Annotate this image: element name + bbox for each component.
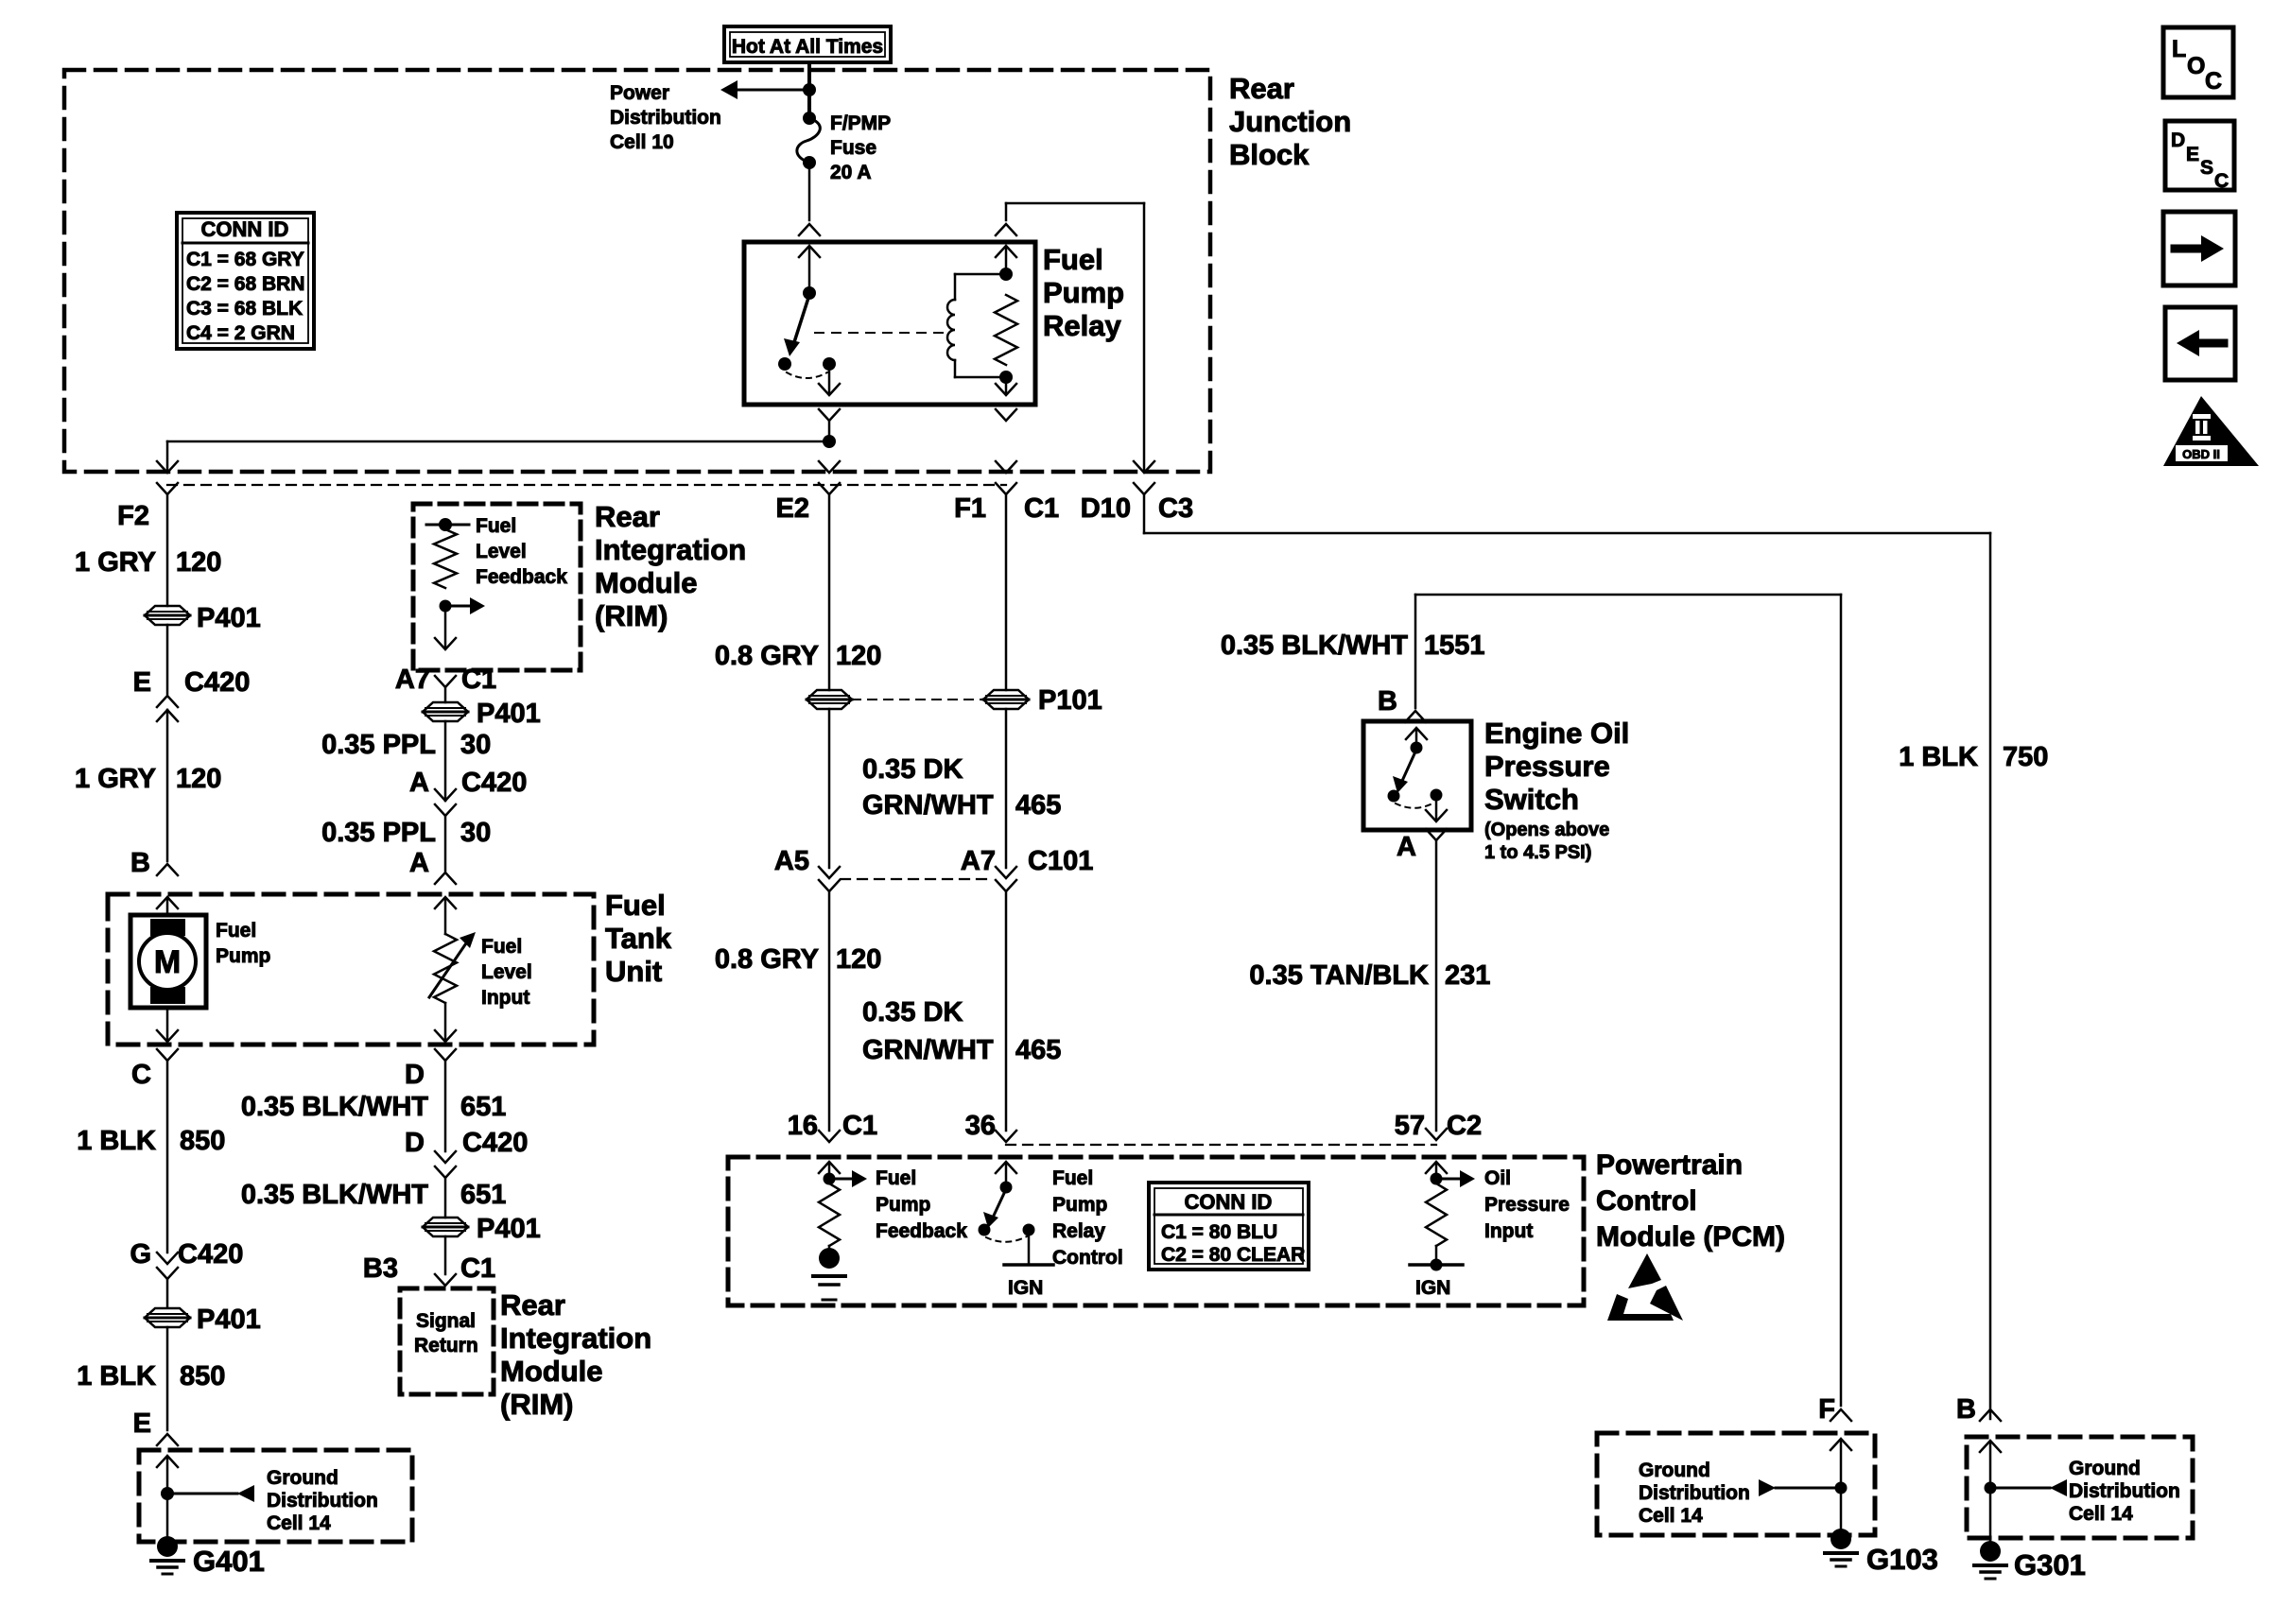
svg-text:20 A: 20 A: [830, 162, 872, 183]
svg-text:C2 = 68 BRN: C2 = 68 BRN: [186, 273, 304, 295]
svg-text:D: D: [405, 1060, 425, 1090]
svg-text:Integration: Integration: [500, 1322, 651, 1355]
svg-text:F2: F2: [117, 501, 149, 531]
svg-text:C1: C1: [461, 665, 496, 695]
wire label 0.35 DK GRN/WHT 465 (upper): [862, 754, 1061, 821]
svg-text:P101: P101: [1038, 685, 1102, 716]
label: Power Distribution Cell 10: [610, 82, 721, 153]
svg-text:0.35 PPL: 0.35 PPL: [321, 818, 436, 848]
pin label F2: [117, 501, 149, 531]
wire: junction to G103: [1840, 1488, 1843, 1529]
fuel level feedback pull-up top bar: [426, 518, 469, 531]
IGN rail tick (relay control): [1004, 1263, 1053, 1267]
svg-text:L: L: [2172, 36, 2186, 62]
label: Ground Distribution Cell 14 (G301): [2069, 1458, 2180, 1525]
wire label 0.35 PPL 30 (lower): [321, 818, 491, 848]
wire label 0.35 BLK/WHT 651 (lower): [241, 1180, 507, 1210]
wire: sender to box edge: [435, 1003, 456, 1042]
label P401 (lower left): [197, 1304, 261, 1335]
svg-text:Relay: Relay: [1043, 309, 1121, 342]
svg-text:C2: C2: [1447, 1111, 1482, 1141]
relay switch arm (movable contact): [784, 295, 809, 356]
svg-text:120: 120: [836, 944, 881, 975]
ground symbol G103: [1825, 1529, 1857, 1566]
wire label 0.8 GRY 120 (lower): [715, 944, 882, 975]
svg-text:36: 36: [965, 1111, 996, 1141]
svg-text:A7: A7: [961, 846, 996, 876]
svg-text:A7: A7: [395, 665, 430, 695]
wire label 1 GRY 120 (upper): [75, 547, 221, 578]
terminal caret at fuel tank unit (pin B): [157, 864, 178, 875]
pin label A (oil switch): [1397, 832, 1416, 862]
signal arrow (fuel level feedback): [445, 597, 485, 614]
svg-text:A: A: [409, 768, 429, 798]
arrow into ground cell: [157, 1456, 178, 1494]
rear junction block dashed boundary: [64, 70, 1210, 472]
variable resistor: fuel level input: [429, 932, 476, 1003]
svg-text:E: E: [133, 1408, 151, 1439]
label C1 (signal return conn): [460, 1253, 495, 1284]
svg-text:B: B: [130, 848, 150, 878]
pin label F1: [954, 493, 986, 524]
label: F/PMP Fuse 20 A: [830, 112, 891, 183]
reference arrow to Ground Distribution Cell 14 (G301): [1990, 1479, 2067, 1496]
relay actuation dashed link (coil to switch): [815, 332, 946, 334]
svg-text:C1 = 80 BLU: C1 = 80 BLU: [1161, 1221, 1277, 1243]
label C420 (pin E): [184, 667, 250, 698]
terminal caret at ground dist cell (E): [157, 1434, 178, 1445]
wire: A7 to P401: [444, 687, 447, 702]
svg-text:Fuel: Fuel: [1043, 243, 1103, 276]
svg-text:D: D: [405, 1128, 425, 1158]
F1 exit arrow and caret: [996, 461, 1016, 494]
label G103: [1866, 1543, 1938, 1576]
label IGN (oil pressure): [1415, 1277, 1450, 1299]
label: Rear Junction Block: [1229, 72, 1351, 171]
svg-text:30: 30: [460, 818, 491, 848]
reference arrow to Ground Distribution Cell 14: [167, 1485, 254, 1502]
label C420 (pin A): [461, 768, 527, 798]
svg-text:Fuel: Fuel: [1052, 1167, 1093, 1189]
pin label C1 (RIM): [1024, 493, 1059, 524]
PCM pin 36 arrow: [996, 1162, 1016, 1185]
svg-text:Distribution: Distribution: [2069, 1480, 2180, 1502]
svg-text:120: 120: [176, 547, 221, 578]
wire label 1 GRY 120 (lower): [75, 764, 221, 794]
wire label 0.35 DK GRN/WHT 465 (lower): [862, 997, 1061, 1065]
svg-text:Level: Level: [481, 961, 532, 983]
wire: coil bottom to relay box edge: [996, 377, 1016, 395]
label: Engine Oil Pressure Switch: [1484, 717, 1629, 816]
label P101: [1038, 685, 1102, 716]
terminal caret at PCM pin 16: [819, 1131, 840, 1142]
pin label E (ground): [133, 1408, 151, 1439]
fuel pump motor circle with M: [139, 933, 196, 990]
label C420 (pin G): [178, 1239, 243, 1270]
pin label 36: [965, 1111, 996, 1141]
terminal caret at PCM pin 57: [1426, 1129, 1447, 1140]
wire: P401 to ground pin E: [166, 1327, 169, 1430]
power label box: Hot At All Times: [724, 26, 891, 62]
pin label E: [133, 667, 151, 698]
node: coil top junction: [999, 268, 1013, 281]
fuel pump brush (top): [150, 919, 185, 936]
svg-text:C420: C420: [462, 1128, 528, 1158]
pin label D (C420): [405, 1128, 425, 1158]
svg-text:Input: Input: [1484, 1220, 1533, 1242]
wire label 0.35 BLK/WHT 651 (upper): [241, 1092, 507, 1122]
pin label A7: [395, 665, 430, 695]
terminal caret below relay (coil return): [996, 409, 1016, 421]
label: Fuel Pump Relay: [1043, 243, 1124, 342]
svg-text:Engine Oil: Engine Oil: [1484, 717, 1629, 750]
label IGN (relay control): [1008, 1277, 1043, 1299]
terminal caret at oil switch B: [1405, 711, 1426, 722]
label G301: [2014, 1548, 2086, 1581]
svg-text:1 BLK: 1 BLK: [1899, 742, 1978, 772]
svg-text:Cell 14: Cell 14: [2069, 1503, 2133, 1525]
label P401 (middle): [477, 699, 541, 729]
ground distribution cell 14 dashed box (G301): [1967, 1437, 2193, 1538]
node: ground junction (G103): [1835, 1482, 1848, 1494]
svg-text:1 to 4.5 PSI): 1 to 4.5 PSI): [1484, 842, 1591, 863]
node: ground junction (G301): [1985, 1482, 1997, 1494]
relay coil feed pin caret: [996, 224, 1016, 235]
node: IGN tie (oil pressure): [1431, 1246, 1443, 1271]
svg-text:1 GRY: 1 GRY: [75, 547, 156, 578]
connector P401 (signal return): [423, 1218, 468, 1236]
svg-text:Feedback: Feedback: [876, 1220, 967, 1242]
svg-text:C: C: [2205, 68, 2222, 95]
svg-text:F1: F1: [954, 493, 986, 524]
svg-text:Integration: Integration: [595, 533, 746, 566]
svg-text:Module: Module: [595, 566, 698, 599]
svg-text:0.35 TAN/BLK: 0.35 TAN/BLK: [1249, 960, 1429, 991]
label: Fuel Level Input: [481, 936, 532, 1009]
connector P401 (left, lower): [145, 1308, 190, 1327]
svg-text:0.35 BLK/WHT: 0.35 BLK/WHT: [241, 1092, 428, 1122]
wire: oil switch B feed from G103 riser: [1415, 595, 1841, 1406]
svg-text:120: 120: [176, 764, 221, 794]
svg-text:Distribution: Distribution: [1639, 1482, 1750, 1504]
terminal caret at ground cell (F): [1831, 1409, 1851, 1421]
label: Powertrain Control Module PCM: [1596, 1149, 1785, 1253]
icon: LOC box: [2163, 27, 2233, 97]
svg-text:0.35 PPL: 0.35 PPL: [321, 730, 436, 760]
wire: branch west to F2 exit: [167, 441, 829, 471]
svg-text:A: A: [1397, 832, 1416, 862]
wire: relay output down to branch node: [828, 421, 831, 441]
wire: P401 to C420 pin E: [166, 625, 169, 694]
node: power distribution tap: [803, 83, 816, 96]
E2 exit arrow and caret: [819, 461, 840, 494]
svg-text:0.35 DK: 0.35 DK: [862, 997, 963, 1028]
svg-text:Return: Return: [414, 1335, 478, 1356]
label C420 (pin D): [462, 1128, 528, 1158]
resistor: fuel level feedback: [434, 529, 457, 588]
relay contact node (output): [823, 357, 836, 371]
relay coil pin arrow: [996, 246, 1016, 272]
svg-text:A5: A5: [774, 846, 809, 876]
svg-text:850: 850: [180, 1126, 225, 1156]
svg-text:C3: C3: [1158, 493, 1193, 524]
signal arrow: fuel pump feedback: [829, 1170, 867, 1187]
terminal caret at ground cell (B): [1980, 1409, 2001, 1421]
svg-text:1 BLK: 1 BLK: [77, 1361, 156, 1391]
PCM switch contact (left): [979, 1224, 991, 1236]
svg-text:1551: 1551: [1424, 631, 1485, 661]
label P401: [197, 603, 261, 633]
svg-text:Tank: Tank: [605, 922, 672, 955]
pin label A7 (C101): [961, 846, 996, 876]
wire: relay output contact to box edge: [819, 364, 840, 395]
icon: OBD II triangle: [2163, 396, 2259, 466]
label: Ground Distribution Cell 14 (G103): [1639, 1460, 1750, 1527]
svg-text:E: E: [133, 667, 151, 698]
wire: F1 to P101: [1005, 494, 1008, 690]
wire: C3 exit east to right riser: [1144, 494, 1990, 1419]
wire: junction to G301: [1989, 1488, 1992, 1541]
svg-text:CONN ID: CONN ID: [1185, 1190, 1273, 1214]
oil switch contact node (left): [1388, 790, 1400, 803]
svg-text:C420: C420: [178, 1239, 243, 1270]
svg-text:Fuel: Fuel: [481, 936, 522, 958]
svg-text:C1: C1: [1024, 493, 1059, 524]
pin label B: [130, 848, 150, 878]
pin label B (G301): [1956, 1394, 1976, 1425]
svg-text:C1: C1: [460, 1253, 495, 1284]
connector P101 (F1 side): [983, 690, 1029, 709]
icon: left arrow box: [2165, 307, 2235, 380]
F2 exit arrow and caret: [157, 461, 178, 606]
wire: oil switch A to box edge: [1426, 795, 1447, 821]
svg-text:Ground: Ground: [1639, 1460, 1710, 1481]
wire label 0.35 BLK/WHT 1551: [1221, 631, 1485, 661]
relay contact travel dashed arc: [787, 372, 827, 378]
wire label 0.35 PPL 30 (upper): [321, 730, 491, 760]
wire label 1 BLK 850 (upper): [77, 1126, 225, 1156]
label: Fuel Pump Feedback: [876, 1167, 967, 1242]
pin label G: [130, 1239, 151, 1270]
svg-text:O: O: [2187, 53, 2205, 79]
svg-text:Pump: Pump: [876, 1194, 930, 1216]
svg-text:GRN/WHT: GRN/WHT: [862, 1035, 994, 1065]
svg-text:850: 850: [180, 1361, 225, 1391]
svg-text:G301: G301: [2014, 1548, 2086, 1581]
svg-text:Cell 10: Cell 10: [610, 131, 674, 153]
svg-text:E2: E2: [776, 493, 809, 524]
arrow into fuel pump: [157, 897, 178, 915]
node: output branch junction: [823, 435, 836, 448]
PCM switch dashed arc: [986, 1236, 1027, 1242]
svg-text:16: 16: [788, 1111, 818, 1141]
table: CONN ID (rear junction block): [177, 213, 314, 349]
wire: C420 to fuel pump B: [166, 710, 169, 861]
resistor: oil pressure input pull: [1426, 1183, 1447, 1246]
PCM relay-control switch pivot: [1000, 1182, 1013, 1194]
svg-text:G103: G103: [1866, 1543, 1938, 1576]
PCM internal ground (pin 16 path): [813, 1246, 845, 1300]
svg-text:(RIM): (RIM): [595, 599, 668, 632]
svg-text:S: S: [2200, 157, 2213, 179]
pin label 16: [788, 1111, 818, 1141]
svg-text:Fuel: Fuel: [216, 920, 256, 942]
wire: junction to ground G401: [166, 1494, 169, 1536]
icon: right arrow box: [2163, 212, 2235, 285]
wire: relay coil feed from D10 riser: [1006, 203, 1144, 471]
svg-text:Module: Module: [500, 1355, 603, 1388]
svg-text:CONN ID: CONN ID: [201, 217, 289, 241]
pin label E2: [776, 493, 809, 524]
pin label F (PCM ground): [1818, 1394, 1835, 1425]
svg-text:IGN: IGN: [1008, 1277, 1043, 1299]
svg-text:P401: P401: [477, 699, 541, 729]
wire label 1 BLK 750: [1899, 742, 2048, 772]
ground symbol G401: [151, 1536, 183, 1574]
pin label C3: [1158, 493, 1193, 524]
relay resistor (parallel with coil): [995, 295, 1017, 365]
oil switch pin B arrow: [1406, 728, 1427, 746]
wire: E2 to P101: [828, 494, 831, 690]
relay switch common pin arrow: [799, 246, 820, 288]
svg-text:Pressure: Pressure: [1484, 1194, 1570, 1216]
svg-text:Input: Input: [481, 987, 529, 1009]
svg-text:C420: C420: [461, 768, 527, 798]
svg-text:Feedback: Feedback: [476, 566, 567, 588]
wire: battery feed from Hot At All Times into junction block: [807, 62, 811, 118]
fuel tank unit dashed boundary: [108, 894, 594, 1045]
svg-text:Rear: Rear: [595, 500, 660, 533]
pin label A (tank unit): [409, 848, 429, 878]
signal arrow: oil pressure input: [1436, 1170, 1475, 1187]
engine oil pressure switch box: [1363, 721, 1471, 830]
arrow to Power Distribution Cell 10: [720, 80, 809, 99]
label: Fuel Pump Relay Control: [1052, 1167, 1123, 1269]
node: oil pressure input tap: [1431, 1173, 1443, 1185]
terminal caret below oil switch (A): [1426, 829, 1447, 1131]
svg-text:C: C: [2214, 170, 2229, 192]
svg-text:Oil: Oil: [1484, 1167, 1511, 1189]
svg-text:F/PMP: F/PMP: [830, 112, 891, 134]
svg-text:E: E: [2186, 144, 2199, 165]
ground symbol G301: [1974, 1541, 2006, 1579]
label C101: [1028, 846, 1093, 876]
svg-text:P401: P401: [477, 1214, 541, 1244]
connector C420 joint (pin G, pointing down): [157, 1253, 178, 1307]
svg-text:Distribution: Distribution: [610, 107, 721, 129]
svg-text:Hot At All Times: Hot At All Times: [732, 36, 883, 58]
connector C101 boundary (thin dashed): [841, 878, 993, 880]
svg-text:Ground: Ground: [267, 1467, 338, 1489]
connector P401 (left, upper): [145, 606, 190, 625]
arrow into ground cell (G103): [1831, 1439, 1851, 1488]
svg-text:D: D: [2171, 130, 2185, 151]
svg-text:Junction: Junction: [1229, 105, 1351, 138]
svg-text:Fuel: Fuel: [876, 1167, 916, 1189]
svg-text:P401: P401: [197, 1304, 261, 1335]
svg-text:Block: Block: [1229, 138, 1310, 171]
connector C420 joint (pin E, pointing up): [157, 696, 178, 721]
svg-text:Relay: Relay: [1052, 1220, 1105, 1242]
connector P401 (middle): [423, 702, 468, 721]
terminal caret into relay (common pin): [799, 224, 820, 235]
svg-text:Unit: Unit: [605, 955, 662, 988]
svg-text:B3: B3: [363, 1253, 398, 1284]
svg-text:Power: Power: [610, 82, 669, 104]
svg-text:C420: C420: [184, 667, 250, 698]
svg-text:Ground: Ground: [2069, 1458, 2141, 1479]
svg-text:D10: D10: [1081, 493, 1131, 524]
wire: pump return to box edge: [157, 1008, 178, 1042]
signal return dashed box (RIM lower): [400, 1288, 494, 1394]
svg-text:Fuse: Fuse: [830, 137, 876, 159]
svg-text:651: 651: [460, 1092, 506, 1122]
node: feedback tap: [440, 600, 452, 613]
svg-text:Powertrain: Powertrain: [1596, 1149, 1743, 1181]
svg-text:0.35 BLK/WHT: 0.35 BLK/WHT: [1221, 631, 1408, 661]
label: Rear Integration Module RIM (upper): [595, 500, 746, 632]
terminal caret at PCM pin 36: [996, 1131, 1016, 1142]
svg-text:C2 = 80 CLEAR: C2 = 80 CLEAR: [1161, 1244, 1305, 1266]
svg-text:Cell 14: Cell 14: [267, 1512, 331, 1534]
relay coil winding arcs: [947, 274, 1006, 377]
relay switch pivot node: [803, 286, 816, 300]
resistor: fuel pump feedback pull: [819, 1183, 840, 1246]
svg-text:GRN/WHT: GRN/WHT: [862, 790, 994, 821]
D10 exit arrow and caret: [1134, 461, 1154, 494]
reference arrow to Ground Distribution Cell 14 (G103): [1759, 1479, 1841, 1496]
svg-text:Level: Level: [476, 541, 527, 562]
svg-text:C: C: [131, 1060, 151, 1090]
svg-text:B: B: [1378, 686, 1397, 717]
svg-text:120: 120: [836, 641, 881, 671]
svg-text:Module (PCM): Module (PCM): [1596, 1221, 1785, 1253]
svg-text:C101: C101: [1028, 846, 1093, 876]
svg-text:(RIM): (RIM): [500, 1388, 573, 1421]
connector C420 joint (pin D, pointing down): [435, 1151, 456, 1218]
svg-text:C1: C1: [842, 1111, 877, 1141]
svg-text:0.35 DK: 0.35 DK: [862, 754, 963, 785]
icon: DESC box: [2165, 121, 2234, 192]
svg-text:465: 465: [1015, 1035, 1061, 1065]
connector P101 (E2 side): [807, 690, 852, 709]
pin label 57: [1395, 1111, 1425, 1141]
PCM switch contact (right): [1023, 1224, 1035, 1236]
svg-text:Rear: Rear: [500, 1288, 565, 1322]
svg-text:Fuel: Fuel: [605, 889, 666, 922]
svg-text:Pump: Pump: [1052, 1194, 1107, 1216]
svg-text:Switch: Switch: [1484, 783, 1579, 816]
oil switch contact node (right): [1431, 789, 1443, 802]
relay contact node (rest): [778, 357, 791, 371]
svg-text:G401: G401: [193, 1545, 265, 1578]
svg-text:750: 750: [2003, 742, 2048, 772]
label: Signal Return: [414, 1310, 478, 1356]
IGN rail tick (oil pressure): [1410, 1263, 1463, 1267]
svg-text:C3 = 68 BLK: C3 = 68 BLK: [186, 298, 303, 320]
wire: F1 P101 to C101: [1005, 709, 1008, 868]
wire label 0.35 TAN/BLK 231: [1249, 960, 1490, 991]
C101 crossing arrows (E2/A5): [819, 867, 840, 1131]
node: fuel pump feedback tap: [824, 1173, 836, 1185]
oil switch pivot node: [1411, 742, 1423, 754]
PCM pin 16 arrow: [819, 1162, 840, 1179]
svg-text:651: 651: [460, 1180, 506, 1210]
fuel pump motor housing: [130, 915, 206, 1008]
arrow into fuel level sender: [435, 897, 456, 934]
RIM dashed box (fuel level feedback): [413, 504, 581, 670]
node: ground junction (G401): [161, 1487, 174, 1500]
